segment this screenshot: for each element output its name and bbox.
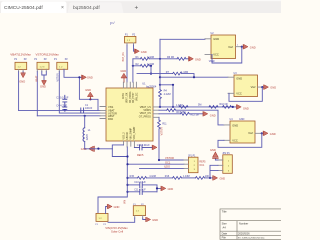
resistor R7 xyxy=(137,73,173,75)
svg-text:LBUCK: LBUCK xyxy=(127,131,129,139)
connector J6 pin stubs xyxy=(135,216,143,218)
wire J3.1 to VSTOR row xyxy=(59,72,100,113)
svg-text:GND: GND xyxy=(168,188,174,191)
svg-text:VOC_SAMP: VOC_SAMP xyxy=(133,126,136,139)
active tab CIMCU-25504.pdf xyxy=(1,2,67,14)
ground arrow above VSTOR node xyxy=(88,92,94,96)
wire VBAT_UV row xyxy=(159,106,236,108)
junction xyxy=(78,76,80,78)
wire BAT_OK J4.1 to U1 xyxy=(126,45,128,82)
op IC U1 body xyxy=(106,88,153,141)
ground above JP2 xyxy=(213,152,219,157)
svg-text:C10 4.7UF: C10 4.7UF xyxy=(134,181,146,184)
wire rail R1/R2 left to U1 VIN_DC xyxy=(132,59,134,82)
wire J2.1 to LBST rail xyxy=(36,72,38,116)
svg-text:OK_PROG: OK_PROG xyxy=(130,91,132,103)
svg-text:OC1: OC1 xyxy=(199,164,205,167)
svg-text:VIN: VIN xyxy=(123,200,126,204)
svg-text:BAT_OK: BAT_OK xyxy=(122,52,125,62)
svg-text:×: × xyxy=(61,5,64,11)
title block frame xyxy=(220,209,281,240)
connector J2 pin stubs xyxy=(37,69,46,71)
ground right of R10 xyxy=(236,105,241,109)
svg-text:4.42M: 4.42M xyxy=(149,175,156,178)
browser tab bar xyxy=(0,0,281,13)
svg-text:5M: 5M xyxy=(198,104,201,107)
svg-text:B:\..\CIMCU-25504.SchDoc: B:\..\CIMCU-25504.SchDoc xyxy=(238,238,266,240)
ground right of C12 xyxy=(152,145,157,149)
header JP2 pin stubs xyxy=(218,160,223,171)
resistor R11 vertical xyxy=(158,117,160,120)
ground on VSS row xyxy=(89,146,94,151)
svg-text:GND: GND xyxy=(250,45,256,49)
U4 pin stubs xyxy=(224,125,261,140)
svg-text:GND: GND xyxy=(114,205,120,209)
header JP1 xyxy=(189,157,199,173)
wire VSS pin jog xyxy=(112,145,123,149)
ground right of J3 branch xyxy=(82,75,87,79)
wire J6.1 xyxy=(108,218,135,222)
svg-text:VSTOR: VSTOR xyxy=(165,156,174,160)
svg-text:10K: 10K xyxy=(205,175,210,178)
svg-text:GND: GND xyxy=(19,80,25,84)
ground right of divider row xyxy=(213,176,218,180)
svg-text:VBAT_OK: VBAT_OK xyxy=(126,92,129,103)
resistor R17 xyxy=(196,177,205,180)
U2 pin stubs xyxy=(205,39,242,55)
svg-text:C11 4.7UF: C11 4.7UF xyxy=(134,188,146,191)
svg-text:4.22M: 4.22M xyxy=(164,93,171,96)
svg-text:Date: Date xyxy=(222,231,228,235)
wire VBAT row to U1 xyxy=(19,109,100,111)
U1 top pin stubs xyxy=(123,82,136,88)
connector J1 pin stubs xyxy=(19,70,24,72)
resistor R9 xyxy=(167,109,176,112)
wire L1 bottom to GND row xyxy=(84,141,86,148)
ground under J2 xyxy=(42,80,46,85)
wire LBST row to U1 xyxy=(37,115,100,117)
wire R9 to U4 GND xyxy=(176,110,224,125)
svg-text:+: + xyxy=(135,5,139,12)
wire bus to JP1 pin2 xyxy=(128,163,185,165)
svg-text:OK_HYST: OK_HYST xyxy=(133,92,135,103)
wire R4 bypass branch xyxy=(160,85,173,107)
svg-text:GND: GND xyxy=(152,218,158,222)
wire VRDIV row xyxy=(159,109,167,111)
connector J3 xyxy=(57,62,68,69)
wire to U3 GND pin xyxy=(160,76,228,78)
junction R1 right xyxy=(159,58,161,60)
wire to JP1 pin3 xyxy=(140,167,185,169)
title block text xyxy=(222,209,266,239)
resistor R12 xyxy=(180,112,189,115)
U1 left pin stubs xyxy=(100,107,106,119)
wire OT_PROG down to JP1 xyxy=(159,129,184,160)
svg-text:GND: GND xyxy=(87,76,93,80)
svg-text:GND: GND xyxy=(120,69,126,73)
wire J2.2 J2.3 to ground xyxy=(42,72,47,80)
wire R1 row xyxy=(133,58,177,60)
svg-text:Number: Number xyxy=(239,221,248,225)
svg-text:Solar Cell: Solar Cell xyxy=(111,230,124,234)
svg-text:VCC: VCC xyxy=(232,139,238,143)
wire VBAT_OV row xyxy=(159,113,180,115)
svg-text:VSTOR: VSTOR xyxy=(57,73,60,81)
wire VREF sample branch xyxy=(112,149,127,157)
svg-text:File: File xyxy=(222,236,227,240)
svg-text:VIN_SAMP: VIN_SAMP xyxy=(130,127,133,139)
svg-text:VBAT(12V)Max: VBAT(12V)Max xyxy=(10,52,31,56)
main rail right of U1 xyxy=(159,39,161,85)
wire J3.2 to VSTOR node xyxy=(64,69,98,110)
connector J2 xyxy=(37,62,49,69)
svg-text:bq25504: bq25504 xyxy=(146,84,157,88)
svg-text:GND: GND xyxy=(213,37,219,41)
svg-text:VCC: VCC xyxy=(236,92,242,96)
wire J1.2 to ground xyxy=(22,71,24,74)
wire divider row xyxy=(128,177,138,179)
svg-text:GND: GND xyxy=(236,77,242,81)
voltage reference U3 body xyxy=(234,75,258,97)
U3 pin stubs xyxy=(228,77,262,93)
wire U2 feedback loop xyxy=(212,47,242,63)
wire J6.2 to ground xyxy=(143,218,146,220)
wire main bottom bus xyxy=(98,147,127,213)
wire J5.2 to ground xyxy=(106,207,107,214)
svg-text:GND: GND xyxy=(195,57,201,61)
svg-text:100UF: 100UF xyxy=(85,107,93,110)
svg-text:AVSS: AVSS xyxy=(122,93,125,99)
svg-text:22UH: 22UH xyxy=(87,134,89,140)
svg-text:1.43M: 1.43M xyxy=(183,175,190,178)
svg-text:VSS_2: VSS_2 xyxy=(123,132,125,140)
ground right of J5 xyxy=(107,204,112,208)
svg-text:R11: R11 xyxy=(162,123,167,126)
svg-text:Size: Size xyxy=(222,221,228,225)
svg-text:R15: R15 xyxy=(130,175,135,178)
wire VSS_2 to ground row xyxy=(85,148,113,150)
wire R2 right down to R7 row xyxy=(150,66,152,74)
svg-text:VBAT: VBAT xyxy=(36,75,39,82)
svg-text:VIN_DC: VIN_DC xyxy=(136,92,138,101)
wire top run to U2 xyxy=(160,38,205,41)
svg-text:VSTOR(12V)Max: VSTOR(12V)Max xyxy=(36,52,60,56)
wire J1.1 to VBAT rail xyxy=(18,72,20,111)
wire J4.2 to ground xyxy=(133,45,136,51)
ground right of caps xyxy=(161,186,166,190)
ground right of J4 xyxy=(135,49,140,53)
svg-text:GND: GND xyxy=(270,86,276,90)
junction U3 Vref xyxy=(261,86,263,88)
inactive tab bq25504.pdf xyxy=(68,2,124,13)
connector J5 (solar input) xyxy=(96,213,108,221)
ground right of U3 Vref xyxy=(264,85,269,89)
connector J4 pin stubs xyxy=(127,43,134,45)
svg-text:REF5: REF5 xyxy=(199,160,206,163)
svg-text:Vref: Vref xyxy=(248,131,253,135)
svg-text:2020/5/26: 2020/5/26 xyxy=(238,231,250,235)
svg-text:VCC: VCC xyxy=(213,53,219,57)
ground right of R6 xyxy=(189,57,194,61)
svg-text:GND: GND xyxy=(239,118,245,121)
voltage reference U4 body xyxy=(230,121,255,143)
svg-text:CIMCU-25504.pdf: CIMCU-25504.pdf xyxy=(4,5,43,11)
connector J1 xyxy=(15,62,27,69)
junction xyxy=(64,109,66,111)
svg-text:GND: GND xyxy=(141,50,147,54)
ground right of R12 xyxy=(203,112,208,116)
svg-text:1 2 3: 1 2 3 xyxy=(40,66,46,68)
junction U4 Vref xyxy=(261,132,263,134)
svg-text:A4: A4 xyxy=(223,226,227,230)
svg-text:VREF: VREF xyxy=(209,61,216,63)
connector J3 pin stubs xyxy=(59,69,64,71)
svg-text:GND: GND xyxy=(243,106,249,110)
svg-text:R6 0R: R6 0R xyxy=(167,56,174,59)
svg-text:PAD: PAD xyxy=(108,117,113,121)
svg-text:GND: GND xyxy=(210,114,216,118)
ground right of J6 xyxy=(146,217,151,221)
wire caps common to ground xyxy=(157,185,161,192)
svg-text:GND: GND xyxy=(220,178,226,181)
svg-text:OT_PROG: OT_PROG xyxy=(139,116,151,119)
junction R2 left xyxy=(132,65,134,67)
svg-text:Vref: Vref xyxy=(228,45,233,49)
wire JP2 pin1 to ground above xyxy=(215,158,218,160)
header JP1 pin stubs xyxy=(184,160,189,168)
connector J4 (BAT_OK) xyxy=(125,36,136,43)
inductor L1 xyxy=(84,116,86,128)
svg-text:GND: GND xyxy=(270,132,276,136)
wire JP2 pin2 pin3 xyxy=(210,165,218,178)
svg-text:GND: GND xyxy=(232,123,238,127)
svg-text:VSS: VSS xyxy=(108,105,113,109)
svg-text:bq25504.pdf: bq25504.pdf xyxy=(73,5,100,11)
wire U4 feedback loop xyxy=(218,133,262,147)
connector J6 xyxy=(133,206,145,216)
junction xyxy=(84,115,86,117)
wire R2 row xyxy=(133,65,151,67)
ground right of U2 Vref xyxy=(243,45,248,49)
ground under J1 xyxy=(21,73,25,78)
wire U3 feedback loop xyxy=(229,87,262,101)
svg-text:GND: GND xyxy=(210,148,216,152)
svg-text:Title: Title xyxy=(222,209,227,213)
resistor R4 vertical xyxy=(159,85,161,90)
svg-text:Vref: Vref xyxy=(251,85,256,89)
svg-text:GND: GND xyxy=(40,85,46,89)
svg-text:R16: R16 xyxy=(165,175,170,178)
voltage reference U2 body xyxy=(211,35,236,59)
svg-text:VSTOR: VSTOR xyxy=(161,127,164,135)
header JP2 xyxy=(223,155,233,174)
svg-text:C12 0.01UF: C12 0.01UF xyxy=(137,144,150,147)
U1 bottom pin stubs xyxy=(124,141,135,147)
junction xyxy=(89,98,91,100)
svg-text:REF5: REF5 xyxy=(137,154,144,157)
junction U2 Vref xyxy=(241,46,243,48)
ground right of U4 Vref xyxy=(263,131,268,135)
U1 right pin stubs xyxy=(153,107,159,117)
svg-text:GND: GND xyxy=(85,88,91,92)
